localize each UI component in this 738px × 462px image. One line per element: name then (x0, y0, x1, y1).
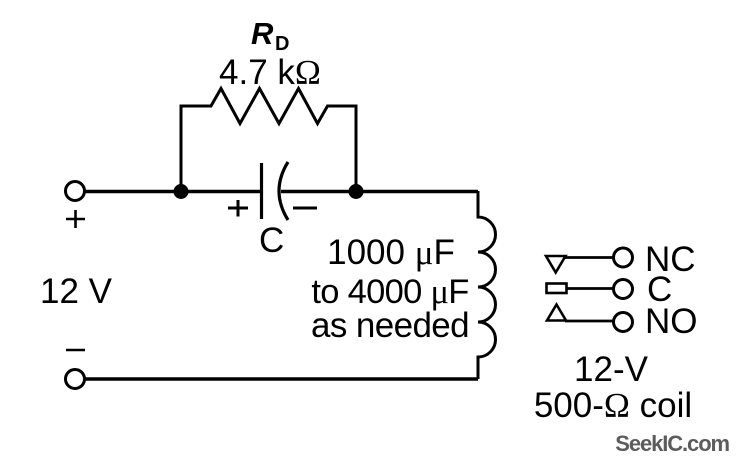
battery negative terminal (66, 370, 85, 389)
wire: top rail right of capacitor (281, 190, 478, 193)
wire: NO contact lead (565, 320, 613, 323)
capacitor C: straight positive plate (260, 163, 263, 219)
contact NO terminal circle (614, 313, 633, 332)
svg-text:C: C (259, 221, 284, 260)
wire: top rail left of capacitor (85, 190, 262, 193)
minus sign (source polarity) (66, 349, 85, 352)
capacitor polarity + (228, 200, 248, 217)
node A (left junction dot) (174, 184, 189, 199)
contact C terminal circle (614, 280, 633, 299)
capacitor polarity - (293, 207, 317, 210)
label RD (251, 16, 289, 55)
battery positive terminal (66, 182, 85, 201)
wire: C contact lead (566, 287, 613, 290)
svg-text:12 V: 12 V (40, 272, 113, 311)
svg-text:D: D (275, 33, 289, 55)
capacitor C: curved negative plate (279, 162, 288, 220)
svg-text:SeekIC.com: SeekIC.com (615, 431, 729, 456)
svg-text:R: R (251, 16, 274, 51)
svg-text:as needed: as needed (311, 306, 469, 345)
svg-text:500-Ω coil: 500-Ω coil (534, 386, 692, 425)
contact NC terminal circle (614, 248, 633, 267)
plus sign (source polarity) (66, 210, 85, 228)
resistor RD (zigzag with connecting loop) (181, 89, 356, 192)
node B (right junction dot) (349, 184, 364, 199)
relay coil K1 (right branch with 4 bumps) (478, 191, 496, 379)
svg-text:NO: NO (645, 302, 698, 341)
svg-text:4.7 kΩ: 4.7 kΩ (219, 53, 321, 92)
svg-text:12-V: 12-V (574, 350, 649, 389)
wire: bottom rail (85, 377, 479, 380)
contact NO: armature triangle (up) (547, 305, 566, 321)
contact C: common pole rectangle (547, 284, 567, 294)
contact NC: armature triangle (down) (546, 256, 566, 273)
wire: NC contact lead (564, 256, 613, 259)
svg-text:1000 μF: 1000 μF (327, 233, 455, 272)
